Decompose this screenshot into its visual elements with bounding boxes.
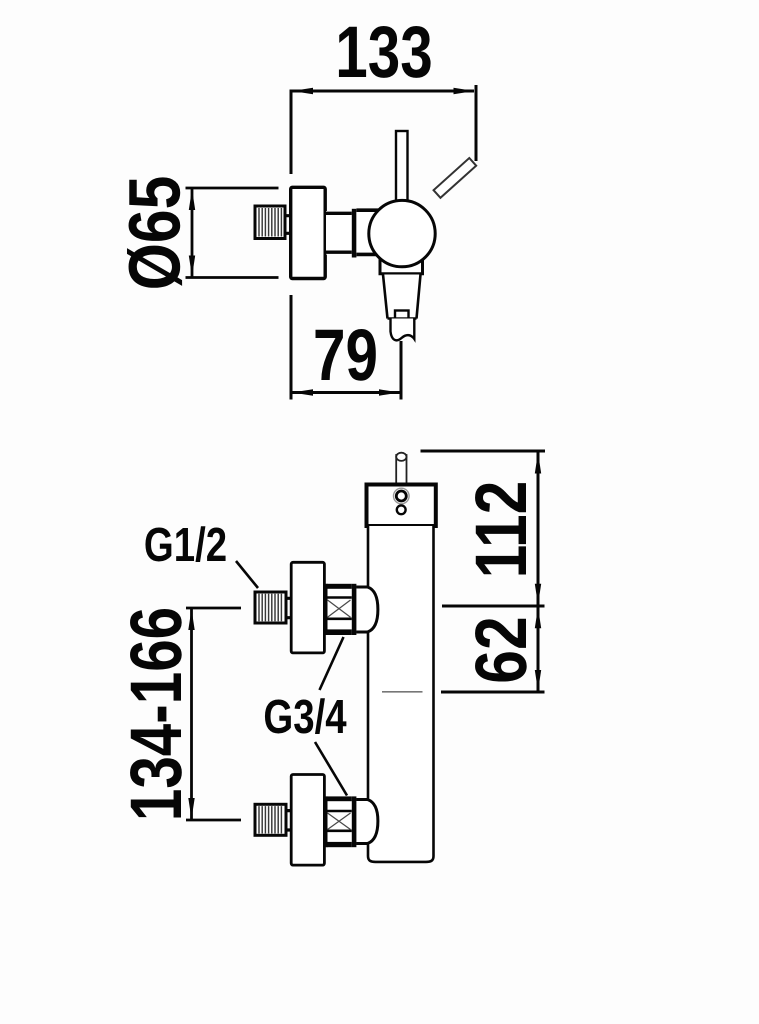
arrow 112 up — [535, 453, 541, 474]
extension line 133 left (upper segment) — [290, 90, 293, 175]
dim text 134-166 (rotated) — [116, 607, 197, 821]
arrow 134-166 down — [188, 798, 194, 819]
lower union thick vertical bar — [352, 796, 357, 847]
arrow 62 down — [535, 670, 541, 691]
dim line Ø65 — [191, 188, 194, 278]
extension line Ø65 bottom — [186, 276, 279, 279]
body mid reference line (grey) — [382, 691, 423, 693]
arrow Ø65 down — [189, 256, 195, 277]
svg-text:112: 112 — [461, 481, 542, 579]
extension line 79 left (lower segment of 133 line) — [290, 295, 293, 400]
arrow 133 right — [454, 88, 475, 94]
knurled nut (plan) — [255, 206, 285, 239]
svg-text:133: 133 — [335, 12, 432, 93]
outlet cone (plan) — [383, 275, 421, 319]
lower thread G1/2 — [255, 804, 286, 835]
dim line 134-166 — [190, 608, 193, 820]
G1/2 label — [144, 519, 227, 572]
svg-text:79: 79 — [313, 315, 378, 396]
upper D-nut on body — [356, 587, 378, 632]
extension line 79 right — [400, 341, 403, 400]
arrow 133 left — [292, 88, 313, 94]
lower union left edge — [326, 796, 328, 847]
upper union bottom bar — [327, 629, 352, 635]
wall escutcheon (plan, side profile) — [291, 187, 326, 278]
lower union top bar — [327, 796, 352, 801]
extension line 134-166 top — [186, 607, 241, 610]
upper union top bar — [327, 584, 352, 589]
extension line 133 right — [475, 85, 478, 161]
upper thread stub — [286, 598, 291, 617]
arrow 62 up — [535, 607, 541, 628]
upper union X cross — [328, 600, 351, 617]
main body column — [368, 526, 434, 862]
outlet notch detail — [395, 311, 409, 319]
lever rod (plan, vertical) — [396, 131, 408, 207]
arrow 79 right — [379, 389, 400, 395]
union ring black bar (plan) — [352, 209, 357, 258]
upper union thick vertical bar — [352, 584, 357, 635]
svg-text:G3/4: G3/4 — [263, 691, 346, 744]
leader line G1/2 — [236, 561, 258, 588]
hose stub with break line — [391, 319, 415, 341]
arrow 79 left — [292, 389, 313, 395]
top cap of body — [367, 485, 436, 527]
lower union body (white base) — [327, 796, 352, 847]
lower D-nut on body — [356, 800, 378, 844]
arrow 112 down — [535, 584, 541, 605]
dim text Ø65 (rotated) — [115, 176, 196, 291]
extension line 134-166 bottom — [186, 819, 241, 822]
G3/4 label — [263, 691, 346, 744]
upper wall escutcheon (front) — [291, 562, 324, 653]
dim line 112/62 — [537, 452, 540, 692]
arrow Ø65 up — [189, 189, 195, 210]
leader line G3/4 lower — [315, 742, 347, 796]
upper thread G1/2 — [255, 592, 286, 623]
svg-text:Ø65: Ø65 — [115, 176, 196, 291]
dim text 79 — [313, 315, 378, 396]
cap ring large — [394, 488, 410, 504]
neck cylinder (plan) — [326, 211, 352, 255]
upper union left edge — [326, 584, 328, 635]
upper union thin lines — [327, 598, 352, 619]
pin on top of body — [396, 453, 406, 485]
dim text 62 (rotated) — [461, 616, 542, 683]
svg-text:G1/2: G1/2 — [144, 519, 227, 572]
lever handle alternate position (rotated outline) — [434, 158, 477, 198]
leader line G3/4 upper — [320, 637, 344, 690]
extension line 62 bottom — [441, 691, 545, 694]
dim line 133 — [291, 90, 474, 93]
svg-text:62: 62 — [461, 616, 542, 683]
dim text 112 (rotated) — [461, 481, 542, 579]
mixer ball (plan) — [369, 200, 435, 266]
extension line 62 top — [442, 605, 545, 608]
svg-text:134-166: 134-166 — [116, 607, 197, 821]
lower union thin lines — [327, 811, 352, 831]
extension line Ø65 top — [186, 187, 279, 190]
lower thread stub — [286, 811, 291, 830]
arrow 134-166 up — [188, 609, 194, 630]
dim line 79 — [291, 391, 401, 394]
lower union bottom bar — [327, 842, 352, 847]
lower wall escutcheon (front) — [291, 775, 324, 866]
nut stub (plan) — [285, 216, 291, 234]
extension line 112 top — [421, 450, 546, 453]
cap hole small — [397, 505, 406, 514]
valve body front block (plan) — [356, 209, 379, 256]
lower union X cross — [328, 813, 351, 830]
outlet collar (plan) — [380, 259, 423, 274]
dim text 133 — [335, 12, 432, 93]
upper union body (white base) — [327, 584, 352, 635]
